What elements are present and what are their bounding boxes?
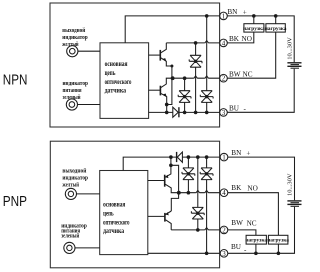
svg-text:нагрузка: нагрузка [245, 238, 267, 244]
junction load1 top [253, 15, 256, 18]
svg-text:NC: NC [247, 219, 257, 227]
label: main circuit of optical sensor [105, 60, 132, 95]
TVS2 suppressor (NC to 0V) [178, 78, 191, 112]
svg-text:выходной: выходной [62, 27, 85, 34]
junction on 0V rail at TVS2 [183, 111, 186, 114]
wire: load1 feed [253, 16, 255, 24]
power indicator lamp LED4 (green) [64, 242, 75, 253]
svg-text:+: + [243, 8, 247, 16]
wire: BW NC rail (terminal 2) [173, 77, 220, 79]
wire: main circuit to BN+ rail [123, 157, 171, 170]
junction load1 bottom [255, 252, 258, 255]
terminal 2 BW [220, 74, 228, 82]
wire: BU- 0V rail PNP (terminal 3) [148, 252, 220, 254]
transistor Q4 (PNP, NC output) [148, 211, 172, 230]
Q4 collector [166, 220, 172, 230]
label: main circuit of optical sensor [103, 200, 130, 235]
svg-text:1: 1 [222, 12, 226, 20]
svg-text:4: 4 [222, 39, 226, 47]
wire: load2 to BW NC [227, 32, 276, 78]
svg-text:основная: основная [103, 200, 125, 208]
hop: BK rail over TVS5 column [205, 190, 209, 193]
load resistor box 2 [266, 24, 285, 32]
Q1 collector [161, 43, 167, 53]
svg-text:BN: BN [227, 8, 238, 16]
wire LED2 to main circuit [78, 104, 101, 106]
svg-text:BK: BK [229, 35, 240, 43]
Q2 emitter with arrow [161, 93, 167, 112]
svg-text:NO: NO [242, 35, 252, 43]
sensor outline box PNP [50, 141, 219, 268]
svg-text:BW: BW [231, 219, 243, 227]
svg-text:основная: основная [105, 60, 128, 68]
TVS3 suppressor (+V to 0V) [200, 16, 213, 113]
hop: BK rail over TVS6 column [196, 190, 200, 193]
wire LED3 to main circuit [76, 193, 99, 195]
junction on BW rail at TVS2 [183, 77, 186, 80]
wire: battery minus to BU- (PNP) [228, 207, 295, 254]
wire: BW NC to load1 (PNP) [228, 230, 256, 235]
diode D2 on BN+ rail [171, 152, 220, 162]
TVS6 suppressor (+V to NC) [191, 157, 204, 230]
svg-text:индикатор: индикатор [62, 34, 88, 41]
svg-text:BU: BU [231, 243, 242, 251]
wire: load2 feed [275, 16, 277, 24]
Q2 base bar [159, 86, 161, 96]
junction A (emitters/collector node) [171, 77, 174, 80]
Q1 base wire [149, 54, 161, 56]
wire: BK NO rail (terminal 4) [166, 42, 220, 44]
output indicator lamp LED3 (yellow) [65, 188, 76, 199]
Q3 collector [165, 184, 179, 193]
svg-text:питания: питания [63, 87, 82, 94]
Q2 base wire [149, 89, 161, 91]
terminal 1 BN [220, 12, 228, 20]
svg-text:выходной: выходной [62, 167, 86, 174]
wire: load1 to BK NO [227, 32, 254, 43]
wire LED1 to main circuit [78, 50, 100, 52]
svg-text:2: 2 [222, 75, 226, 83]
Q4 base bar [164, 213, 166, 222]
label: output indicator yellow [62, 167, 88, 188]
battery BT2 10...30V [287, 201, 301, 206]
transistor Q2 (NPN, NC output) [149, 78, 173, 112]
battery BT1 10...30V [287, 63, 301, 68]
junction TVS5 top [205, 156, 208, 159]
svg-text:зеленый: зеленый [61, 232, 79, 239]
wire LED4 to main circuit [75, 247, 100, 249]
svg-text:индикатор: индикатор [63, 80, 89, 87]
svg-text:1: 1 [222, 154, 226, 162]
output indicator lamp LED1 (yellow) [67, 46, 78, 57]
Q2 collector [161, 78, 173, 87]
hop: BW rail over TVS5 column [205, 228, 209, 231]
terminal 2 BW (PNP) [220, 226, 228, 234]
svg-text:оптического: оптического [105, 78, 132, 86]
terminal 3 BU [220, 109, 228, 117]
junction on BK rail [194, 42, 197, 45]
label: power indicator green [63, 80, 89, 101]
svg-text:цепь: цепь [103, 209, 114, 217]
load resistor box 3 [246, 235, 266, 244]
svg-text:10...30V: 10...30V [287, 173, 294, 196]
svg-text:желтый: желтый [62, 181, 79, 188]
svg-text:PNP: PNP [3, 193, 27, 210]
Q3 emitter with arrow [165, 157, 171, 177]
wire: BW NC rail PNP (terminal 2) [171, 229, 220, 231]
wire: BK NO rail PNP (terminal 4) [179, 192, 220, 194]
svg-text:NO: NO [247, 184, 257, 192]
svg-text:нагрузка: нагрузка [267, 238, 289, 244]
label: output indicator yellow [62, 27, 88, 48]
sensor outline box NPN [50, 3, 220, 127]
wire: Q1 emitter return to 0V rail [167, 78, 172, 104]
junction on 0V rail at TVS5 [205, 252, 208, 255]
power indicator lamp LED2 (green) [66, 99, 77, 110]
junction on 0V rail at Q2 emitter [165, 111, 168, 114]
junction on BN+ rail [205, 15, 208, 18]
svg-text:BW: BW [229, 71, 241, 79]
wire: BN+ to battery (PNP) [228, 157, 295, 200]
Q3 base wire [148, 180, 165, 182]
junction TVS4 top [187, 156, 190, 159]
svg-text:BK: BK [231, 184, 242, 192]
wire: emitter jog to Q4 emitter [171, 165, 179, 211]
Q1 emitter with arrow [161, 58, 172, 78]
junction at emitter jog [170, 164, 173, 167]
TVS1 suppressor (NO to 0V) [189, 43, 202, 113]
hop: BW rail over TVS1 column [194, 76, 198, 79]
wire: load2 to BU- [277, 244, 279, 253]
terminal 3 BU (PNP) [220, 250, 228, 258]
svg-text:оптического: оптического [103, 219, 130, 227]
Q4 emitter with arrow [166, 211, 172, 215]
svg-text:желтый: желтый [62, 41, 78, 48]
svg-text:нагрузка: нагрузка [243, 26, 265, 32]
junction at emitter merge [165, 103, 168, 106]
junction on 0V rail at TVS1 [194, 111, 197, 114]
junction load2 top [274, 15, 277, 18]
TVS4 suppressor (+V to NO) [182, 157, 195, 193]
junction on BW rail at TVS6 [197, 229, 200, 232]
svg-text:BN: BN [231, 149, 242, 157]
svg-text:датчика: датчика [105, 87, 127, 95]
svg-text:-: - [244, 105, 247, 113]
label: power indicator green [61, 222, 87, 239]
junction load2 bottom [277, 252, 280, 255]
svg-text:NPN: NPN [3, 72, 28, 89]
Q4 base wire [148, 215, 165, 217]
load resistor box 4 [268, 235, 288, 244]
diode D1 on 0V rail [173, 107, 179, 117]
wire: BU- 0V rail (terminal 3) [149, 111, 220, 113]
main circuit box U2 [100, 171, 148, 255]
svg-text:зеленый: зеленый [63, 94, 81, 101]
wire: BK NO to load2 (PNP) [228, 193, 279, 236]
load resistor box 1 [244, 24, 264, 32]
terminal 1 BN (PNP) [220, 153, 228, 161]
terminal 4 BK (PNP) [220, 189, 228, 197]
Q3 base bar [164, 175, 166, 187]
svg-text:NC: NC [243, 71, 253, 79]
transistor Q1 (NPN, NO output) [149, 43, 173, 78]
junction B (collector node) [177, 191, 180, 194]
wire: main circuit to BN+ rail [125, 16, 220, 43]
svg-text:цепь: цепь [105, 69, 116, 77]
svg-text:2: 2 [222, 226, 226, 234]
hop: BK rail over TVS3 column [205, 41, 209, 44]
terminal 4 BK [220, 39, 228, 47]
hop: BW rail over TVS3 column [205, 76, 209, 79]
wire: battery minus to BU- [227, 69, 294, 113]
svg-text:-: - [244, 246, 247, 254]
svg-text:BU: BU [229, 104, 240, 112]
main circuit box U1 [100, 43, 149, 119]
junction TVS6 column top [197, 156, 200, 159]
svg-text:+: + [246, 149, 250, 157]
junction on BK rail at TVS4 [187, 191, 190, 194]
svg-text:10...30V: 10...30V [287, 37, 294, 60]
transistor Q3 (PNP, NO output) [148, 157, 179, 193]
svg-text:3: 3 [222, 109, 226, 117]
svg-text:нагрузка: нагрузка [265, 26, 287, 32]
TVS5 suppressor (+V to 0V) [200, 157, 213, 253]
svg-text:датчика: датчика [103, 227, 124, 235]
svg-text:4: 4 [222, 189, 226, 197]
wire: load1 to BU- [255, 244, 257, 253]
wire: BN+ to battery [227, 16, 294, 62]
Q1 base bar [159, 50, 161, 61]
junction on 0V rail at TVS3 [205, 111, 208, 114]
svg-text:3: 3 [222, 250, 226, 258]
junction: Q3 emitter at BN+ [170, 156, 173, 159]
